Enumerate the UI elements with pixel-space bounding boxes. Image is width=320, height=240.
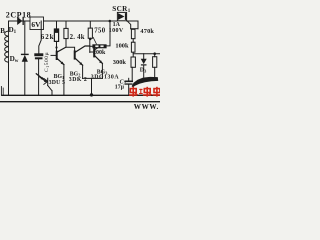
svg-text:3DG130A: 3DG130A bbox=[91, 74, 120, 80]
svg-text:200k: 200k bbox=[93, 50, 106, 56]
svg-text:470k: 470k bbox=[140, 28, 154, 35]
svg-text:17µ: 17µ bbox=[115, 84, 125, 90]
svg-text:750: 750 bbox=[94, 28, 106, 35]
svg-text:3DU 5: 3DU 5 bbox=[49, 80, 66, 86]
svg-text:1A: 1A bbox=[113, 22, 121, 28]
svg-text:2. 4k: 2. 4k bbox=[70, 34, 85, 41]
svg-text:WWW.: WWW. bbox=[134, 103, 159, 110]
svg-text:100V: 100V bbox=[109, 28, 124, 34]
svg-text:D3: D3 bbox=[140, 67, 147, 73]
svg-text:C1500µ: C1500µ bbox=[44, 52, 50, 72]
svg-text:100k: 100k bbox=[115, 42, 129, 49]
svg-text:6V: 6V bbox=[31, 20, 41, 29]
svg-text:3DK 2: 3DK 2 bbox=[69, 77, 87, 83]
svg-text:B: B bbox=[0, 27, 5, 35]
svg-text:62k: 62k bbox=[41, 33, 55, 41]
svg-text:300k: 300k bbox=[113, 59, 127, 66]
svg-text:2CP18: 2CP18 bbox=[6, 10, 31, 19]
